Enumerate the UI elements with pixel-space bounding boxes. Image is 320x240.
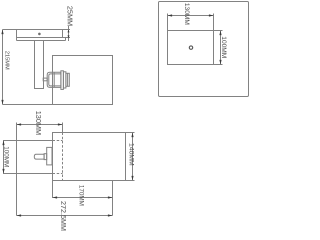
svg-text:170MM: 170MM bbox=[77, 185, 84, 206]
svg-text:140MM: 140MM bbox=[128, 143, 135, 166]
dim 100MM plan ext bottom bbox=[214, 64, 223, 66]
arrow 215 top bbox=[1, 30, 3, 35]
knob stem bbox=[34, 154, 44, 159]
plate lip left edge bbox=[16, 38, 18, 41]
dim 170MM ext right bbox=[112, 181, 114, 216]
dim 130MM front line bbox=[17, 124, 63, 126]
knuckle cup divider bbox=[53, 72, 55, 87]
screw dot on plate bbox=[38, 33, 41, 36]
body right edge hidden bbox=[62, 133, 64, 181]
arrow 130plan right bbox=[209, 14, 214, 16]
head profile rect bbox=[53, 133, 126, 181]
arrow 272.5 right bbox=[108, 214, 113, 216]
view3 body top edge bbox=[3, 140, 53, 142]
plan center hole bbox=[189, 46, 192, 49]
plate lip right edge bbox=[65, 38, 67, 41]
body bottom edge bbox=[3, 173, 53, 175]
dim 140MM ext bottom bbox=[126, 180, 135, 182]
body left edge bbox=[16, 141, 18, 174]
arrow 140 top bbox=[131, 133, 133, 138]
svg-text:272.5MM: 272.5MM bbox=[59, 201, 68, 231]
dim 100MM front line bbox=[3, 141, 5, 174]
dim 140MM ext top bbox=[126, 132, 135, 134]
dim 140MM line bbox=[132, 133, 134, 181]
dim 272.5MM ext left bbox=[16, 174, 18, 216]
arrow 170 left bbox=[53, 196, 58, 198]
dim 170MM line bbox=[53, 197, 113, 199]
dim 215MM ext bottom bbox=[3, 104, 53, 106]
knuckle cylinder inner line bbox=[67, 73, 69, 86]
arrow 140 bottom bbox=[131, 176, 133, 181]
knob nut bbox=[44, 154, 47, 160]
arrow 215 bottom bbox=[1, 100, 3, 105]
dim 272.5MM line bbox=[17, 215, 113, 217]
svg-text:100MM: 100MM bbox=[2, 146, 9, 167]
dim 130MM plan line bbox=[168, 15, 214, 17]
arrow 25 top bbox=[68, 30, 70, 33]
svg-text:25MM: 25MM bbox=[66, 6, 75, 26]
arrow 272.5 left bbox=[17, 214, 22, 216]
body bottom edge hidden bbox=[53, 173, 63, 175]
arrow 25 bottom bbox=[68, 35, 70, 38]
dim 100MM plan line bbox=[220, 31, 222, 65]
knob flange bbox=[47, 147, 52, 165]
svg-text:100MM: 100MM bbox=[220, 36, 227, 58]
arrow 100front top bbox=[2, 141, 4, 146]
arrow 100plan bottom bbox=[219, 60, 221, 65]
knuckle ring bbox=[63, 72, 66, 88]
body top edge hidden bbox=[53, 140, 63, 142]
dim 130MM plan ext right bbox=[213, 14, 215, 31]
svg-text:130MM: 130MM bbox=[34, 111, 43, 135]
arrow 130front right bbox=[58, 123, 63, 125]
head square side view bbox=[53, 56, 113, 105]
knuckle cylinder bbox=[66, 73, 69, 86]
dim 25MM line bbox=[68, 26, 70, 41]
dim 215MM ext top bbox=[3, 29, 17, 31]
arrow 130front left bbox=[17, 123, 22, 125]
dim 170MM ext left bbox=[52, 181, 54, 199]
knuckle flange bbox=[61, 71, 64, 90]
dim 25MM ext lower bbox=[63, 37, 71, 39]
dim 25MM ext upper bbox=[63, 29, 71, 31]
dim 215MM line bbox=[2, 30, 4, 105]
view1 ceiling plate bbox=[17, 30, 63, 38]
view2 plan outer box bbox=[159, 2, 249, 97]
arrow 130plan left bbox=[168, 14, 173, 16]
stem bbox=[35, 41, 44, 89]
dim 100MM plan ext top bbox=[214, 30, 223, 32]
arrow 170 right bbox=[108, 196, 113, 198]
dim 130MM plan ext left bbox=[167, 14, 169, 31]
knuckle cup inner bbox=[49, 74, 61, 86]
arrow 100front bottom bbox=[2, 169, 4, 174]
plan inner square bbox=[168, 31, 214, 65]
svg-text:130MM: 130MM bbox=[183, 3, 190, 25]
knuckle cup outer bbox=[47, 72, 61, 87]
svg-text:215MM: 215MM bbox=[3, 51, 9, 70]
dim 130MM front ext left bbox=[16, 123, 18, 141]
arrow 100plan top bbox=[219, 31, 221, 36]
knuckle tab bbox=[43, 78, 47, 81]
dim 130MM front ext right bbox=[62, 123, 64, 133]
plate lip bottom bbox=[17, 40, 66, 42]
